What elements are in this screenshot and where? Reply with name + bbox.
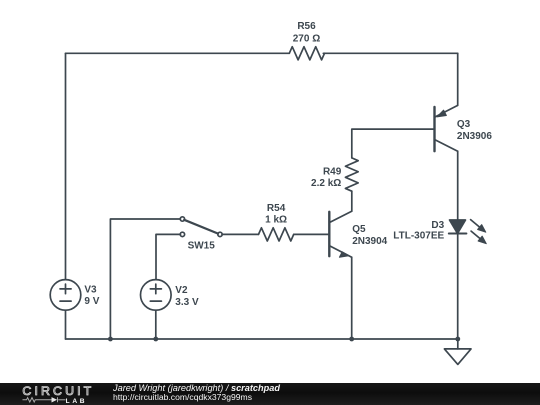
- svg-text:1 kΩ: 1 kΩ: [265, 215, 287, 226]
- wire Q5 emitter to ground rail: [351, 257, 353, 339]
- transistor Q5 collector lead: [330, 211, 352, 222]
- svg-text:270 Ω: 270 Ω: [293, 33, 320, 44]
- voltage source V3 circle: [50, 280, 81, 311]
- transistor Q3 collector lead: [435, 140, 458, 152]
- svg-text:LTL-307EE: LTL-307EE: [393, 231, 444, 242]
- transistor Q3 emitter arrow: [437, 110, 446, 117]
- svg-text:R56: R56: [297, 21, 316, 32]
- wire top rail right of R56: [323, 52, 457, 54]
- switch SW15 bottom throw contact: [180, 232, 184, 236]
- voltage source V2 plus sign: [150, 284, 161, 294]
- LED D3 light arrow 2: [471, 231, 486, 244]
- svg-text:V2: V2: [175, 285, 188, 296]
- wire left rail upper (top rail to V3 top): [65, 53, 67, 279]
- svg-text:9 V: 9 V: [84, 296, 99, 307]
- svg-text:V3: V3: [84, 285, 97, 296]
- voltage source V2 circle: [141, 280, 172, 311]
- svg-text:R49: R49: [323, 166, 342, 177]
- svg-text:2.2 kΩ: 2.2 kΩ: [311, 178, 341, 189]
- switch SW15 wire from top throw to left rail: [110, 219, 180, 339]
- footer credit line: [113, 384, 280, 402]
- wire top rail left of R56: [66, 52, 290, 54]
- ground symbol triangle: [444, 349, 471, 365]
- transistor Q5 bar: [328, 212, 330, 256]
- wire R49 bottom to Q5 collector lead: [351, 191, 353, 211]
- svg-text:CIRCUIT: CIRCUIT: [22, 384, 94, 398]
- switch SW15 common contact: [218, 232, 222, 236]
- svg-text:Q3: Q3: [457, 119, 471, 130]
- LED D3 light arrow 1: [471, 220, 486, 233]
- switch SW15 wire bottom throw to V2 top: [156, 234, 181, 279]
- wire SW15 common to R54: [222, 233, 259, 235]
- svg-text:LAB: LAB: [66, 398, 88, 405]
- switch SW15 top throw contact: [180, 217, 184, 221]
- transistor Q3 emitter lead: [435, 105, 458, 117]
- resistor R54: [259, 228, 294, 241]
- svg-text:3.3 V: 3.3 V: [175, 297, 199, 308]
- resistor R49: [345, 158, 358, 191]
- CircuitLab logo: [15, 383, 115, 405]
- junction node at Q5 emitter: [349, 337, 354, 342]
- voltage source V3 minus sign: [60, 300, 71, 302]
- transistor Q5 emitter lead: [330, 246, 352, 257]
- wire bottom ground rail: [66, 338, 458, 340]
- LED D3 cathode bar: [449, 233, 467, 235]
- transistor Q3 bar: [433, 107, 435, 151]
- ground symbol stub: [457, 339, 459, 349]
- svg-text:SW15: SW15: [188, 240, 216, 251]
- wire V2 bottom to ground rail: [155, 310, 157, 339]
- junction node at ground: [455, 337, 460, 342]
- wire LED D3 to ground rail: [457, 234, 459, 340]
- svg-text:Q5: Q5: [352, 224, 366, 235]
- wire Q3 base to R49 top: [352, 129, 435, 158]
- switch SW15 blade: [184, 220, 218, 234]
- svg-text:2N3904: 2N3904: [352, 236, 387, 247]
- wire right rail (top rail to Q3 emitter lead): [457, 53, 459, 105]
- resistor R56: [289, 47, 324, 60]
- transistor Q5 emitter arrow: [339, 252, 348, 257]
- svg-text:D3: D3: [431, 220, 444, 231]
- voltage source V2 minus sign: [150, 300, 161, 302]
- footer bar: [0, 383, 540, 405]
- voltage source V3 plus sign: [60, 284, 71, 294]
- wire R54 to Q5 base: [294, 233, 330, 235]
- junction node at left rail / switch feed: [108, 337, 113, 342]
- svg-text:R54: R54: [267, 203, 286, 214]
- wire Q3 collector down to LED D3: [457, 151, 459, 220]
- junction node at V2 bottom: [153, 337, 158, 342]
- svg-text:2N3906: 2N3906: [457, 131, 492, 142]
- LED D3 triangle: [450, 220, 466, 234]
- wire left rail lower (V3 bottom to ground rail): [65, 310, 67, 339]
